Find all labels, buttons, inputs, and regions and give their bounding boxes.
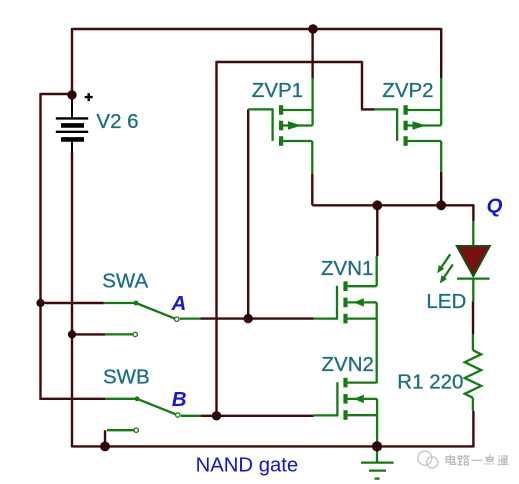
svg-text:ZVP1: ZVP1 [252,79,303,102]
svg-text:ZVN1: ZVN1 [321,257,373,280]
svg-text:B: B [172,388,187,411]
svg-text:SWB: SWB [103,366,150,389]
svg-text:LED: LED [426,290,466,313]
svg-text:NAND gate: NAND gate [196,455,299,477]
svg-text:R1 220: R1 220 [397,371,463,394]
svg-text:ZVP2: ZVP2 [382,79,433,102]
svg-text:A: A [171,292,187,315]
svg-text:SWA: SWA [102,270,148,293]
svg-text:Q: Q [487,194,503,217]
svg-text:V2 6: V2 6 [96,110,138,133]
svg-text:ZVN2: ZVN2 [322,353,374,376]
